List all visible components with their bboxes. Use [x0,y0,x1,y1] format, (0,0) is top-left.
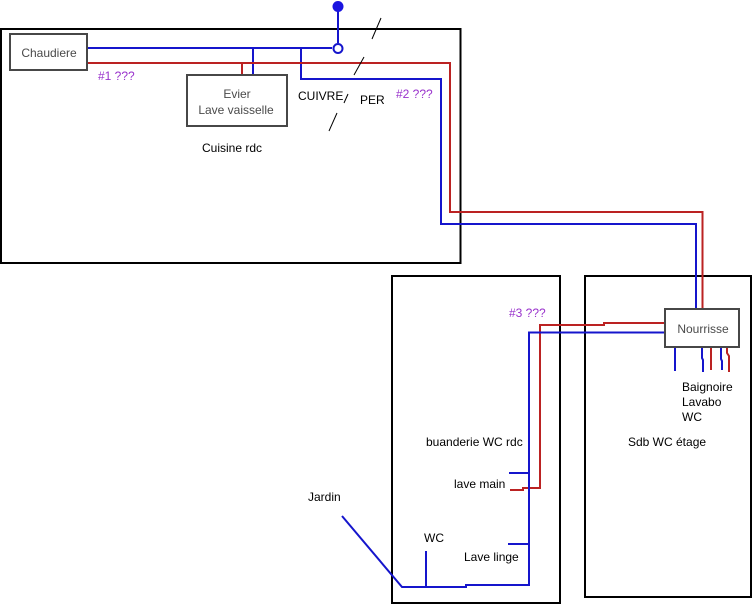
wire cold from Nourrisse through buanderie to Jardin [342,333,665,588]
svg-text:Lave vaisselle: Lave vaisselle [198,103,274,117]
wire cold stub Lave linge [508,543,529,545]
svg-text:Baignoire: Baignoire [682,380,733,394]
room Sdb WC etage outline [585,276,751,597]
node water supply point [333,1,344,12]
valve open circle [334,44,343,53]
svg-text:WC: WC [424,531,444,545]
wire hot Nourrisse output 1 [710,345,712,370]
wire hot from Nourrisse to lave main [510,323,665,490]
svg-text:Cuisine rdc: Cuisine rdc [202,141,262,155]
wire cold water main from Chaudiere to valve [87,47,332,49]
wire cold stub WC buanderie [425,551,427,588]
svg-text:Sdb WC étage: Sdb WC étage [628,435,706,449]
svg-text:lave main: lave main [454,477,505,491]
wire cold drop to Evier [252,48,254,74]
pipe-type mark slash on hot main [354,57,364,75]
svg-text:Lavabo: Lavabo [682,395,722,409]
svg-text:buanderie WC rdc: buanderie WC rdc [426,435,523,449]
wire cold Nourrisse output 2 [702,347,703,372]
wire riser from valve to supply point [337,9,339,43]
svg-text:CUIVRE: CUIVRE [298,89,343,103]
svg-text:Evier: Evier [223,87,250,101]
wire cold branch to Nourrisse [301,48,696,309]
wire cold stub lave main [509,472,529,474]
wire cold Nourrisse output 3 [721,347,722,370]
pipe-type mark slash lower segment [329,113,337,131]
svg-text:Chaudiere: Chaudiere [21,46,77,60]
svg-text:#2 ???: #2 ??? [396,87,433,101]
svg-text:Jardin: Jardin [308,490,341,504]
pipe-type mark slash on room edge [372,18,381,39]
pipe-type mark slash upper segment [344,94,348,103]
svg-text:WC: WC [682,410,702,424]
component Nourrisse [665,309,739,347]
wire hot water main from Chaudiere [87,63,703,310]
svg-text:#1 ???: #1 ??? [98,69,135,83]
svg-text:PER: PER [360,93,385,107]
wire cold Nourrisse output 1 [674,347,676,371]
room Cuisine rdc outline [1,29,461,263]
component Evier / Lave vaisselle [187,75,287,126]
wire hot Nourrisse output 2 [727,344,729,372]
svg-text:Nourrisse: Nourrisse [677,322,729,336]
room buanderie WC rdc outline [392,276,560,603]
svg-text:Lave linge: Lave linge [464,550,519,564]
wire hot drop to Evier [241,63,243,74]
svg-text:#3 ???: #3 ??? [509,306,546,320]
component Chaudiere [10,34,87,70]
